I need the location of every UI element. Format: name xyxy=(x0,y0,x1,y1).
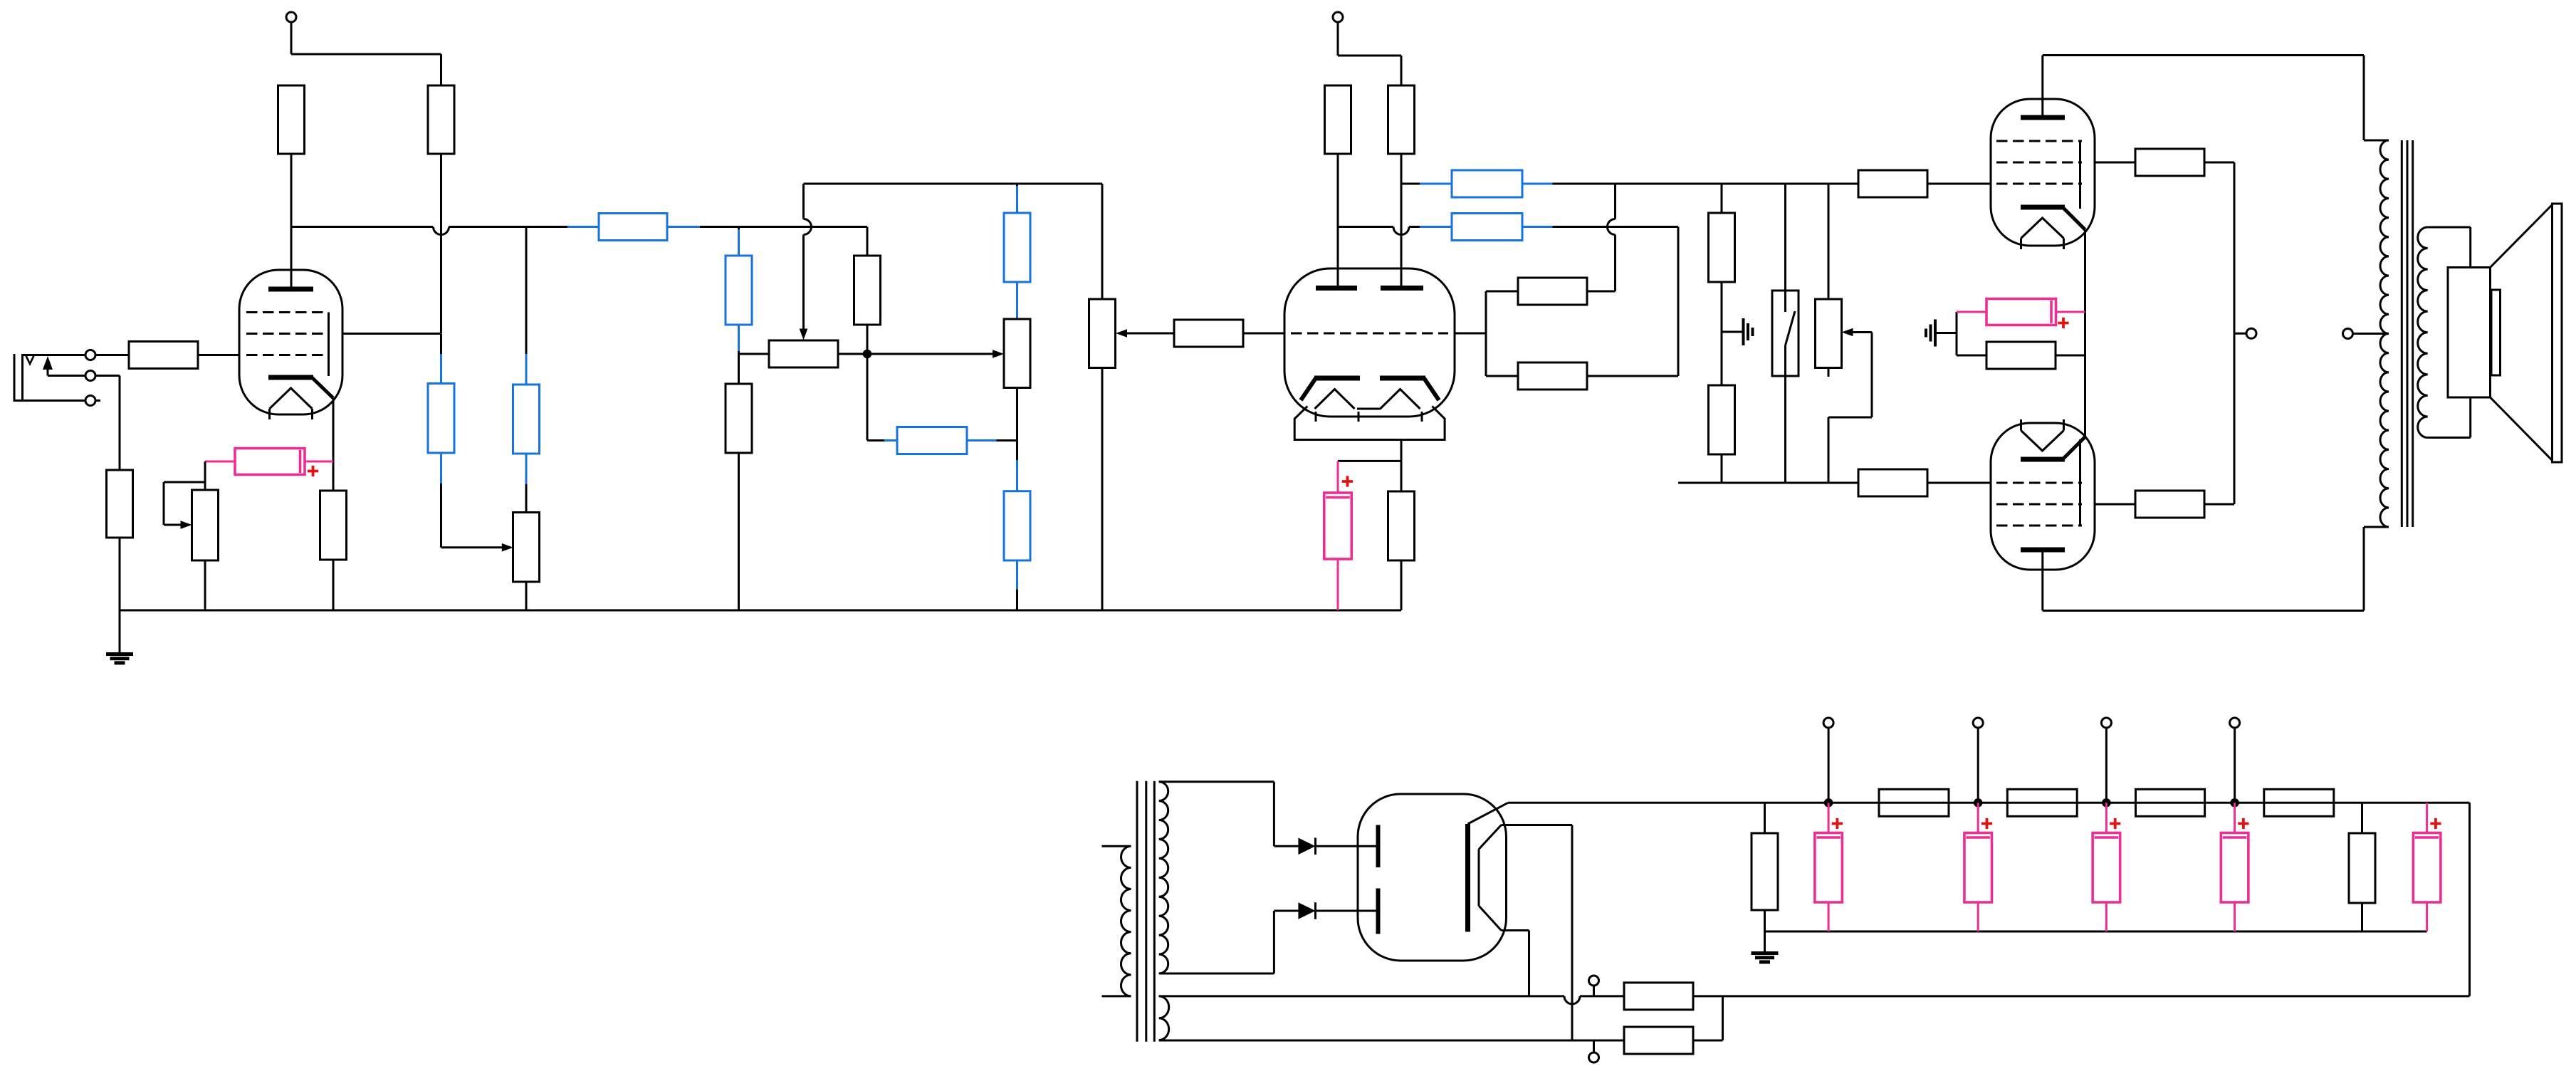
wire VR3 to node dot xyxy=(838,353,864,355)
resistor R9 (blue) xyxy=(726,256,752,325)
wire R3 to V1 plate xyxy=(290,154,293,288)
wire V3 plate to OT xyxy=(2043,56,2389,141)
T1 core xyxy=(1137,781,1154,1042)
wire R21 to ground bus xyxy=(1400,560,1403,610)
wire bus to coupling resistor xyxy=(449,226,568,228)
transformer T2 primary xyxy=(2380,140,2389,527)
wire plate bus V1 xyxy=(291,226,433,228)
wire R14 to V2 grid xyxy=(1243,333,1284,335)
polarity + C4 xyxy=(1832,818,1843,829)
wire VR2 to ground bus xyxy=(525,582,528,610)
node dot 1 xyxy=(1824,798,1833,808)
wire VR4 to R13 xyxy=(1016,441,1018,491)
wire hop on vertical xyxy=(1608,219,1616,235)
triode V2 (dual) xyxy=(1284,268,1455,440)
resistor R1 grid series xyxy=(129,342,198,369)
capacitor C3 cathode bypass xyxy=(1957,299,2085,325)
resistor R24 grid stopper V3 xyxy=(1858,170,1927,197)
resistor R3 plate load V1 xyxy=(278,85,305,154)
wire to R18 blue xyxy=(1409,226,1452,228)
ground (sideways) cathode xyxy=(1926,312,1957,355)
potentiometer VR1 boost xyxy=(164,461,219,610)
polarity + C7 xyxy=(2238,818,2248,829)
resistor R22 divider A xyxy=(1709,184,1735,332)
B+ takeoff terminal 4 xyxy=(2230,718,2240,803)
resistor R16 plate load xyxy=(1388,85,1415,154)
capacitor C4 filter xyxy=(1815,803,1843,931)
wire R24 to V3 grid xyxy=(1927,183,1991,185)
resistor R35 filter series xyxy=(2264,789,2334,816)
resistor R4 screen feed xyxy=(428,85,454,154)
input jack J1 xyxy=(14,354,85,402)
resistor R13 (blue) xyxy=(1004,491,1030,560)
wire B+ A feed xyxy=(291,22,441,85)
T2 centre tap terminal xyxy=(2343,329,2389,339)
polarity + C8 xyxy=(2430,818,2441,829)
wire bus tap to R8 xyxy=(525,227,528,355)
wire hop over plate2 lead xyxy=(1393,227,1409,235)
wire R25 to V4 grid xyxy=(1927,482,1991,484)
wire V1 cathode xyxy=(333,398,335,491)
wire filter ground rail xyxy=(1765,931,2427,933)
resistor R32 filter series xyxy=(1879,789,1949,816)
potentiometer VR4 xyxy=(1004,319,1030,441)
wire B+ rail xyxy=(1508,803,2470,996)
wire R13 to ground bus xyxy=(1016,560,1018,610)
wire lower grid rail xyxy=(1678,482,1858,484)
wire plate1 coupling xyxy=(1338,226,1393,228)
wire bus corner down xyxy=(866,227,869,256)
resistor R12b (blue) upper xyxy=(1004,184,1030,319)
resistor R10 shunt xyxy=(726,354,752,610)
resistor R5 cathode xyxy=(320,491,347,560)
wire plate2 coupling xyxy=(1401,183,1452,185)
rectifier V5 xyxy=(1358,794,1508,961)
diode D1 xyxy=(1274,838,1378,855)
resistor R25 grid stopper V4 xyxy=(1858,469,1927,496)
wire V4 screen lead xyxy=(2095,503,2135,506)
resistor R7 (blue) xyxy=(428,384,454,454)
wire R12 to VR4 leg xyxy=(967,439,1017,442)
capacitor C7 filter xyxy=(2221,803,2248,931)
wiper arrow down onto VR3 xyxy=(800,235,808,340)
wire R15 to plate 1 xyxy=(1337,154,1339,286)
wire R7 lower lead xyxy=(441,453,503,548)
potentiometer VR5 xyxy=(1089,299,1116,368)
transformer T1 HV secondary xyxy=(1159,782,1274,973)
wire heater bus 2 xyxy=(1159,1040,1624,1042)
resistor R18 coupling (blue) xyxy=(1452,214,1522,241)
wire R27 to screen node xyxy=(2204,503,2234,506)
pentode V1 xyxy=(239,270,441,419)
jack terminal circle 2 xyxy=(85,371,95,381)
B+ takeoff terminal 1 xyxy=(1823,718,1833,803)
resistor R26 screen V3 xyxy=(2135,149,2204,176)
wire R8 to VR2 xyxy=(525,454,528,513)
polarity + C5 xyxy=(1981,818,1992,829)
polarity + C3 xyxy=(2058,318,2068,328)
ground main xyxy=(1752,931,1779,962)
resistor R11 from bus xyxy=(854,256,881,350)
B+ terminal A xyxy=(286,12,296,22)
wire R29 to join xyxy=(1693,995,2470,997)
wire R19 to top line xyxy=(1587,235,1616,292)
polarity + C2 xyxy=(1342,476,1353,486)
transformer T1 heater winding xyxy=(1159,996,1169,1040)
ground (sideways) divider xyxy=(1722,318,1753,345)
resistor R2 input load xyxy=(107,470,133,538)
wire R20 to lower line xyxy=(1587,375,1678,377)
resistor R19 divider upper xyxy=(1518,278,1587,305)
wire ground bus stage1 xyxy=(120,610,1401,612)
wire R4 down to screen node xyxy=(440,154,442,333)
wire bus tap to R9 xyxy=(738,227,740,230)
wire V4 plate to OT xyxy=(2043,527,2389,611)
potentiometer VR2 xyxy=(513,513,540,583)
wire hop over bus xyxy=(804,219,812,235)
capacitor C2 cathode bypass xyxy=(1324,461,1352,610)
wire R18 to corner xyxy=(1522,227,1678,377)
polarity + C6 xyxy=(2110,818,2120,829)
resistor R27 screen V4 xyxy=(2135,491,2204,518)
resistor R17 coupling (blue) xyxy=(1452,170,1522,197)
capacitor C6 filter xyxy=(2093,803,2120,931)
wire V5 heater pin 2 xyxy=(1502,931,1529,996)
wire R5 to ground bus xyxy=(333,560,335,610)
wire V2 grid right tee xyxy=(1455,291,1518,376)
resistor R33 filter series xyxy=(2007,789,2077,816)
wire arrow to VR4 xyxy=(871,350,1004,358)
wire shared cathode line xyxy=(2084,230,2086,437)
wire jack to R2 xyxy=(95,376,120,471)
VR6 wiper path xyxy=(1828,328,1872,483)
jack terminal circle 3 (sleeve) xyxy=(85,396,95,406)
wiper arrow into VR5 xyxy=(1116,329,1174,338)
resistor R28 cathode xyxy=(1957,342,2085,369)
resistor R29 humdinger A xyxy=(1624,983,1693,1010)
transformer T1 primary xyxy=(1102,846,1131,996)
wire B+ B feed xyxy=(1338,22,1401,85)
capacitor C5 filter xyxy=(1964,803,1992,931)
potentiometer VR6 bias xyxy=(1816,184,1842,377)
B+ terminal B xyxy=(1333,12,1343,22)
resistor R21 cathode xyxy=(1388,491,1415,560)
wire R30 riser xyxy=(1693,996,1723,1040)
node dot 3 xyxy=(2102,798,2111,808)
wire bus continues xyxy=(700,226,867,228)
wire VR5 to ground bus xyxy=(1101,368,1104,611)
pentode V3 (power) xyxy=(1991,99,2095,249)
resistor R36 dropper xyxy=(2349,803,2375,931)
switch S1 xyxy=(1772,184,1799,483)
wire V5 heater pin 1 xyxy=(1502,825,1573,1041)
wire node down to R12 xyxy=(867,357,897,441)
wire screen node vertical xyxy=(2204,162,2246,504)
potentiometer VR3 volume xyxy=(769,340,838,367)
wire jack tip to grid resistor xyxy=(95,354,129,356)
wire sleeve stub xyxy=(95,399,100,402)
wire screen node blue lead xyxy=(440,334,442,355)
diode D2 xyxy=(1274,902,1378,919)
wire blue lead xyxy=(667,226,700,228)
resistor R14 grid series xyxy=(1174,320,1243,347)
screen B+ terminal xyxy=(2246,328,2256,338)
resistor R12 (blue) xyxy=(897,427,967,454)
speaker SPK1 xyxy=(2448,204,2562,462)
jack terminal circle 1 (tip) xyxy=(85,350,95,360)
resistor R6 coupling (blue) xyxy=(599,214,667,241)
wire V2 cathode xyxy=(1338,440,1401,492)
wiper line from corner xyxy=(802,184,805,219)
node junction dot xyxy=(863,350,872,359)
transformer T2 secondary xyxy=(2418,227,2471,438)
resistor R20 divider lower xyxy=(1518,362,1587,390)
resistor R23 divider B xyxy=(1709,332,1735,483)
wire heater bus 1 xyxy=(1159,995,1564,997)
wire R1 to V1 grid xyxy=(198,354,239,356)
node dot 4 xyxy=(2230,798,2239,808)
B+ takeoff terminal 3 xyxy=(2101,718,2111,803)
wiper arrow into VR2 xyxy=(502,543,513,552)
resistor R30 humdinger B xyxy=(1624,1027,1693,1054)
pilot terminal 2 xyxy=(1589,1040,1599,1062)
T2 core xyxy=(2402,140,2412,527)
wire R2 to ground bus xyxy=(119,538,121,610)
wire R9 to VR3 lead xyxy=(739,325,770,354)
wire hop on heater bus xyxy=(1564,996,1580,1004)
jack tip arrow xyxy=(43,356,85,376)
node dot 2 xyxy=(1974,798,1983,808)
wire V3 screen lead xyxy=(2095,162,2135,164)
pilot terminal 1 xyxy=(1589,976,1599,996)
wire R16 to plate 2 xyxy=(1400,154,1403,286)
wire hop over screen lead xyxy=(434,227,449,235)
resistor R31 bleeder xyxy=(1752,803,1778,931)
resistor R8 (blue) xyxy=(513,385,540,454)
wire R17 to power grid line xyxy=(1522,183,1858,185)
wire top link to VR5 xyxy=(804,184,1103,299)
polarity + C1 xyxy=(308,466,318,476)
capacitor C8 filter last xyxy=(2413,803,2441,931)
B+ takeoff terminal 2 xyxy=(1973,718,1983,803)
ground xyxy=(106,610,133,663)
resistor R15 plate load xyxy=(1325,85,1351,154)
resistor R34 filter series xyxy=(2136,789,2205,816)
capacitor C1 cathode bypass xyxy=(205,449,333,475)
wire blue lead xyxy=(567,226,599,228)
pentode V4 (power) xyxy=(1991,419,2095,570)
